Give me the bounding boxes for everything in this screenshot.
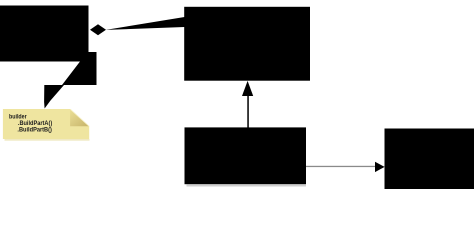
note fold highlight edge (70, 109, 89, 126)
note body (3, 109, 89, 139)
dependency wire to Product (306, 166, 376, 167)
class box Director (top-left, clipped at left edge) (0, 6, 89, 62)
svg-text:.BuildPartB(): .BuildPartB() (17, 127, 52, 134)
class box Builder (top middle) (184, 7, 310, 81)
association wedge from diamond to Builder box (106, 17, 185, 30)
generalization stem wire (247, 96, 249, 128)
dependency arrowhead (right, to Product) (375, 162, 385, 172)
note pointer lower tip triangle (44, 85, 64, 109)
class box ConcreteBuilder (bottom middle) (185, 127, 307, 184)
note pointer upper flag (from Director corner) (62, 52, 97, 85)
generalization arrowhead (up, to Builder) (242, 81, 253, 96)
class box Product (bottom right, clipped at right/bottom edges) (385, 129, 474, 190)
note shadow (5, 139, 90, 141)
shadow under ConcreteBuilder box (187, 185, 307, 187)
aggregation diamond (90, 24, 106, 35)
note fold flap (70, 109, 89, 126)
